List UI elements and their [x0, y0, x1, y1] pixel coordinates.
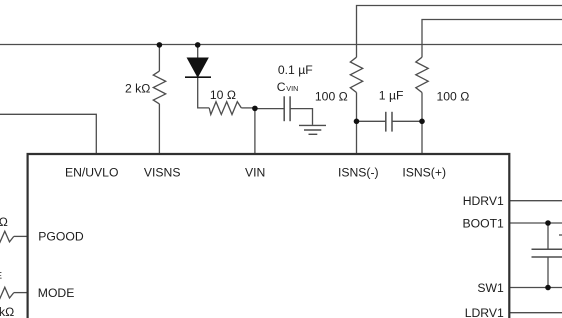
- wire VIN to CVIN: [255, 108, 284, 110]
- wire VISNS lead: [158, 104, 160, 154]
- capacitor C 1uF plates: [385, 112, 387, 132]
- IC U1 outline: [28, 154, 510, 318]
- capacitor CVIN plates: [283, 96, 285, 121]
- node SW1: [545, 285, 551, 291]
- node BOOT1: [545, 220, 551, 226]
- svg-text:EN/UVLO: EN/UVLO: [65, 165, 119, 179]
- wire diode cathode lead: [198, 77, 210, 108]
- wire fragment at right edge: [559, 234, 562, 236]
- resistor R 2k: [153, 71, 165, 104]
- svg-text:SW1: SW1: [477, 281, 504, 295]
- capacitor CBOOT plates: [532, 248, 562, 250]
- wire to VIN node: [241, 107, 255, 109]
- svg-text:HDRV1: HDRV1: [463, 194, 504, 208]
- wire SW1 cap bottom lead: [547, 257, 549, 288]
- svg-text:MODE: MODE: [38, 286, 75, 300]
- wire 1uF to ISNS(+) node: [392, 120, 422, 122]
- svg-text:ISNS(-): ISNS(-): [338, 165, 379, 179]
- node 2k/rail: [157, 42, 163, 48]
- resistor R 100ohm right: [416, 57, 428, 92]
- wire ISNS(+) lead: [421, 93, 423, 155]
- svg-text:ISNS(+): ISNS(+): [402, 165, 446, 179]
- svg-text:kΩ: kΩ: [0, 305, 14, 318]
- wire PGOOD stub: [14, 235, 27, 237]
- wire BOOT1 cap top lead: [547, 223, 549, 249]
- diode D1: [185, 58, 211, 77]
- node junction dots: [157, 42, 551, 290]
- value labels: [0, 63, 469, 318]
- resistor R 100ohm left: [350, 57, 362, 92]
- wire ISNS(-) top feed: [357, 6, 562, 58]
- node VIN: [252, 106, 258, 112]
- node diode/rail: [195, 42, 201, 48]
- svg-text:VIN: VIN: [286, 84, 298, 93]
- node ISNS(+): [419, 119, 425, 125]
- node ISNS(-): [354, 119, 360, 125]
- wire SW1: [509, 287, 562, 289]
- svg-text:E: E: [0, 270, 2, 280]
- resistor PGOOD pull (clipped): [0, 231, 14, 242]
- svg-text:100 Ω: 100 Ω: [437, 89, 470, 103]
- wire 2k top lead: [158, 45, 160, 71]
- svg-text:Ω: Ω: [0, 215, 8, 229]
- wire LDRV1: [509, 312, 562, 314]
- svg-text:VISNS: VISNS: [144, 165, 181, 179]
- svg-text:VIN: VIN: [245, 165, 265, 179]
- svg-text:PGOOD: PGOOD: [38, 230, 84, 244]
- wire node to 1uF: [357, 120, 386, 122]
- svg-text:1 µF: 1 µF: [379, 89, 404, 103]
- svg-text:0.1 µF: 0.1 µF: [278, 63, 313, 77]
- wire CVIN to ground: [290, 109, 312, 125]
- svg-text:LDRV1: LDRV1: [465, 306, 504, 318]
- wire HDRV1: [509, 200, 562, 202]
- wire ISNS(+) top feed: [422, 20, 562, 58]
- wire EN/UVLO feed: [0, 114, 96, 154]
- svg-text:C: C: [277, 80, 286, 94]
- wire main horizontal rail: [0, 44, 562, 46]
- wire VIN lead: [254, 108, 256, 154]
- svg-text:BOOT1: BOOT1: [462, 216, 504, 230]
- wire diode anode lead: [197, 45, 199, 58]
- svg-text:100 Ω: 100 Ω: [315, 89, 348, 103]
- wire ISNS(-) lead: [356, 93, 358, 155]
- svg-text:10 Ω: 10 Ω: [210, 88, 236, 102]
- resistor R 10ohm: [209, 102, 241, 115]
- wire MODE stub: [14, 292, 27, 294]
- ground: [299, 125, 326, 134]
- svg-text:2 kΩ: 2 kΩ: [125, 82, 150, 96]
- resistor MODE pull (clipped): [0, 287, 14, 298]
- wire BOOT1: [509, 222, 562, 224]
